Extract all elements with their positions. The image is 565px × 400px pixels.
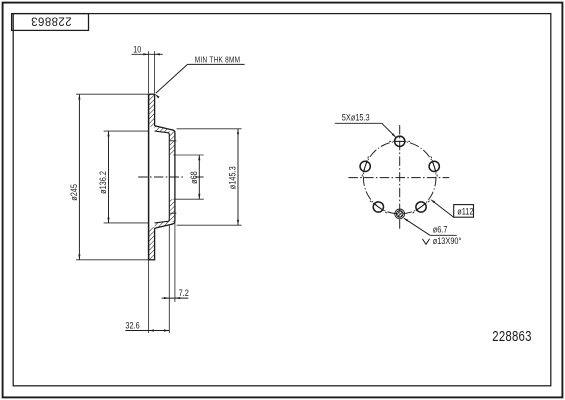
svg-text:ø136.2: ø136.2: [97, 171, 108, 194]
svg-text:ø13X90°: ø13X90°: [433, 236, 462, 246]
svg-text:MIN THK 8MM: MIN THK 8MM: [195, 55, 240, 65]
svg-text:ø68: ø68: [188, 171, 199, 184]
svg-text:ø6.7: ø6.7: [433, 225, 448, 235]
svg-text:7.2: 7.2: [179, 287, 189, 298]
svg-text:5Xø15.3: 5Xø15.3: [342, 113, 370, 123]
svg-text:ø145.3: ø145.3: [227, 166, 238, 189]
svg-text:228863: 228863: [31, 15, 72, 27]
svg-text:10: 10: [133, 45, 141, 55]
svg-text:ø112: ø112: [457, 206, 474, 217]
svg-text:228863: 228863: [492, 328, 531, 345]
svg-text:32.6: 32.6: [125, 319, 140, 330]
svg-text:ø245: ø245: [68, 184, 79, 201]
